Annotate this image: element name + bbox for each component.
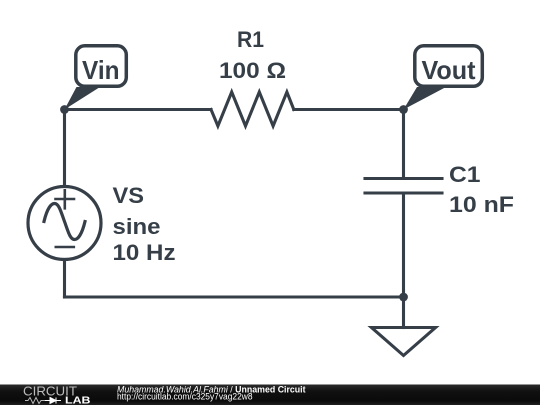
svg-text:Vin: Vin [82, 55, 120, 85]
svg-text:Vout: Vout [422, 55, 476, 85]
voltage source VS minus sign [56, 246, 74, 249]
resistor R1 [211, 92, 294, 126]
voltage source VS plus sign [56, 190, 75, 208]
flag Vout box [415, 46, 483, 87]
node Vout junction dot [399, 105, 408, 114]
capacitor C1 top plate [365, 177, 442, 180]
flag Vin box [76, 46, 127, 87]
wire from Vout node down to capacitor C1 [402, 110, 405, 179]
svg-text:sine: sine [113, 214, 161, 239]
voltage source VS sine waveform [44, 204, 85, 240]
capacitor C1 bottom plate [365, 191, 442, 194]
footer logo diode symbol [45, 398, 61, 404]
svg-text:VS: VS [113, 183, 145, 208]
node Vin junction dot [60, 105, 69, 114]
flag Vin pointer tail [65, 87, 101, 110]
svg-text:LAB: LAB [65, 395, 91, 405]
wire bottom rail [65, 295, 404, 298]
node bottom junction dot [399, 293, 408, 302]
wire from capacitor C1 to bottom junction node [402, 193, 405, 297]
voltage source VS circle [28, 187, 101, 260]
wire from VS bottom down to bottom rail [63, 260, 66, 298]
footer logo resistor squiggle [25, 398, 45, 404]
svg-text:10 Hz: 10 Hz [113, 240, 176, 265]
svg-text:R1: R1 [237, 27, 264, 52]
wire from resistor R1 to Vout node [294, 108, 404, 111]
wire top rail from Vin node to resistor R1 [65, 108, 212, 111]
wire from Vin node down to voltage source VS [63, 110, 66, 187]
flag Vout pointer tail [404, 87, 447, 110]
svg-text:http://circuitlab.com/c325y7va: http://circuitlab.com/c325y7vag22w8 [117, 392, 253, 402]
ground symbol [372, 328, 436, 356]
svg-text:10 nF: 10 nF [449, 192, 514, 217]
wire from bottom junction to ground [402, 297, 405, 328]
svg-text:C1: C1 [449, 162, 481, 187]
svg-text:100 Ω: 100 Ω [219, 58, 286, 83]
